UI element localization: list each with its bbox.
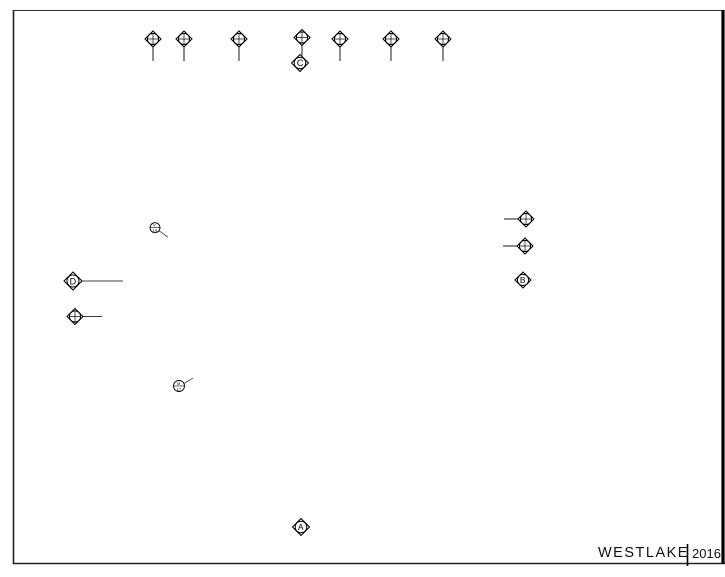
symbol tag circle H	[174, 378, 194, 392]
top grid marker 4	[294, 30, 310, 56]
gutter tag circle	[150, 223, 168, 237]
left grid marker (no letter)	[67, 309, 102, 325]
grid bubble C	[292, 55, 309, 72]
dimensions	[0, 0, 1, 1]
building walls	[0, 0, 1, 1]
right grid marker 2	[503, 238, 533, 254]
svg-text:WESTLAKE: WESTLAKE	[598, 545, 689, 561]
top grid marker 5	[332, 31, 348, 61]
svg-text:C: C	[297, 58, 304, 68]
svg-text:15: 15	[153, 228, 158, 233]
grid bubble B	[515, 272, 531, 288]
labels	[0, 0, 1, 1]
svg-text:V: V	[153, 223, 156, 228]
grid bubble A	[293, 519, 310, 536]
svg-text:17: 17	[177, 386, 182, 391]
svg-text:2016: 2016	[692, 546, 721, 561]
svg-text:A: A	[298, 522, 304, 532]
right grid marker 1	[504, 211, 534, 227]
svg-text:D: D	[70, 276, 77, 286]
top grid marker 7	[435, 31, 451, 61]
top grid marker 1	[145, 31, 161, 61]
top grid marker 6	[383, 31, 399, 61]
top grid marker 3	[231, 31, 247, 61]
svg-text:B: B	[520, 275, 526, 285]
top grid marker 2	[176, 31, 192, 61]
svg-text:M: M	[177, 381, 180, 386]
title block	[598, 544, 721, 566]
grid markers	[64, 30, 534, 536]
grid bubble D	[64, 272, 123, 290]
interior	[0, 0, 1, 1]
